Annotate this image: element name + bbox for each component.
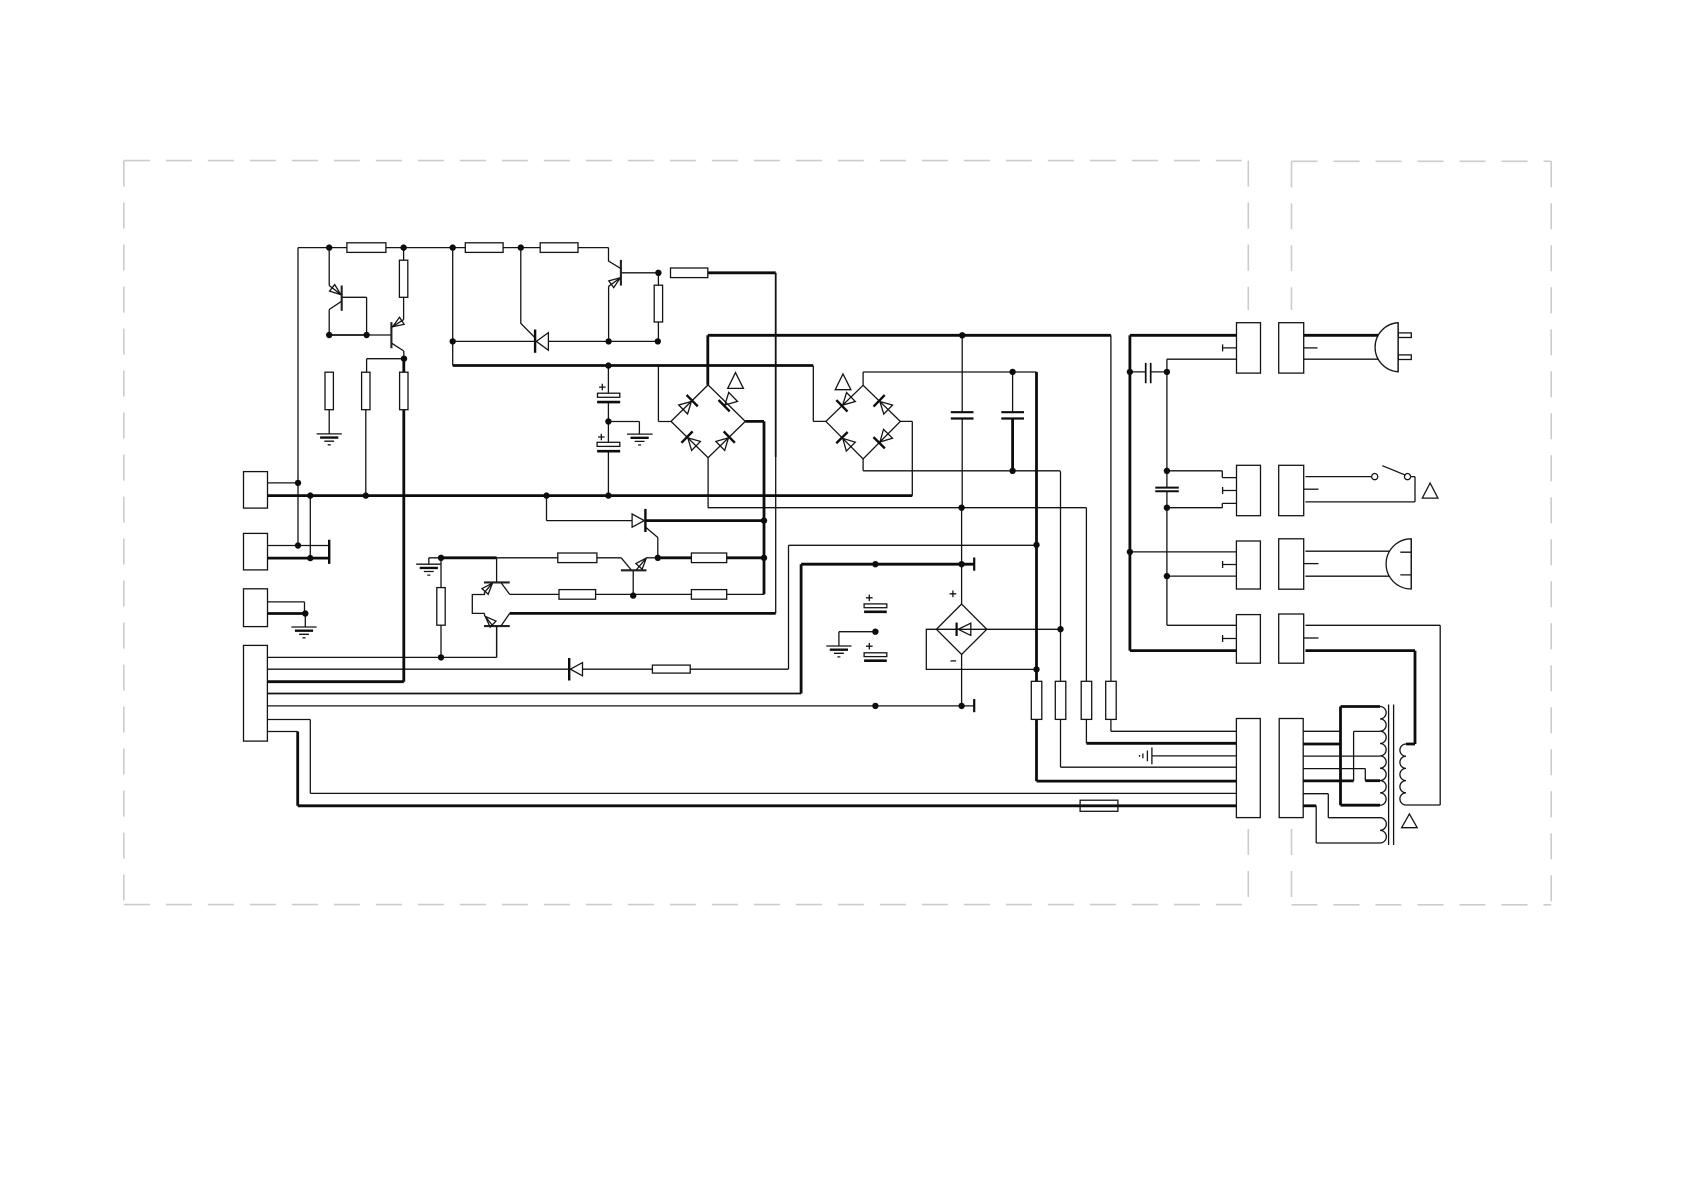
wire Q3 emitter drop <box>608 286 610 341</box>
node lower rail C1 <box>605 362 611 368</box>
wire connector J3 pin2 bold to ground node <box>268 612 306 615</box>
wire lamp LA1 upper lead <box>1305 550 1392 552</box>
wire bridge BR3 bottom chain <box>961 655 963 706</box>
node C6 C7 midpoint <box>872 629 878 635</box>
connector P2R middle pin stub <box>1304 488 1319 490</box>
wire rail tap to J2 pin2 net <box>309 496 311 558</box>
wire net from BR1 bottom to fuse F3 column <box>708 507 1087 509</box>
connector J4 <box>244 645 268 741</box>
terminator bar TB3 <box>973 699 975 712</box>
wire J4 pin1 row to Q5 base corner <box>267 626 496 657</box>
resistor R4 <box>399 260 407 297</box>
wire bridge BR3 left vertex loop <box>926 629 1036 669</box>
node Q2 collector <box>401 356 407 362</box>
capacitor C5 series <box>1146 363 1151 383</box>
lamp LA1 <box>1386 539 1411 589</box>
node base rail left <box>326 332 332 338</box>
connector P2L <box>1237 465 1261 515</box>
wire resistor R15 bottom to J4 pin1 row <box>440 625 442 657</box>
wire to connector P2L lower pin <box>1167 503 1237 507</box>
wire connector J2 pin1 to terminator TB1 <box>268 545 330 547</box>
wire connector P5R pin7 bold stub <box>1303 804 1316 807</box>
wire electrolytic C1 top feed <box>607 366 609 394</box>
node base rail mid <box>363 332 369 338</box>
capacitor C3 <box>951 412 974 418</box>
wire transformer primary common bold bus <box>1339 707 1342 806</box>
node J2 pin1 <box>295 542 301 548</box>
wire base rail between Q1 and Q2 <box>329 334 366 336</box>
transformer TR1 secondary winding <box>1400 744 1406 805</box>
node Q3 base <box>655 270 661 276</box>
connector P2R <box>1279 465 1304 515</box>
resistor R7 <box>400 372 408 410</box>
wire lower supply rail y=365.5 <box>453 364 814 367</box>
wire bridge BR1 right vertex drop <box>745 421 764 594</box>
accessory dashed box left edge upper run <box>1291 161 1293 310</box>
wire resistor R14 to feedback riser <box>690 668 788 670</box>
connector P4R middle pin stub <box>1304 637 1319 639</box>
node BR3 top chain upper <box>958 505 964 511</box>
ground GND5 <box>826 632 875 657</box>
switch SW1 <box>1372 466 1411 480</box>
bridge rectifier BR2 <box>826 385 900 459</box>
node top rail riser A <box>450 244 456 250</box>
transistor Q6 <box>621 555 650 570</box>
node top rail D1 feed <box>518 244 524 250</box>
wire bridge BR2 top vertex to cap C4 net <box>863 372 1036 385</box>
wire feedback net to fuse F1 column <box>789 544 1037 546</box>
wire amp row3 bold from Q5 collector <box>510 612 776 615</box>
wire Q6 base drop to row2 <box>632 570 634 595</box>
capacitor C8 <box>1155 488 1179 492</box>
wire vertical link rows at x=775.7 lower part <box>775 457 777 613</box>
wire Q2 collector bold chain through resistor R7 <box>402 359 405 682</box>
wire Q2 emitter to resistor R4 <box>403 297 405 319</box>
bridge rectifier BR3 <box>936 591 986 661</box>
wire lamp LA1 lower lead <box>1305 575 1392 577</box>
node P2 lower tap <box>1164 505 1170 511</box>
node lamp upper tap <box>1127 549 1133 555</box>
wire connector P5R pin1 link <box>1303 730 1340 732</box>
wire diode D2 output bold to bridge column <box>645 519 764 522</box>
node rail R6 <box>363 492 369 498</box>
connector P3R <box>1279 539 1304 589</box>
wire amp row2 right segment <box>727 593 764 595</box>
wire amp row1 left segment <box>497 557 558 559</box>
wire fuse F2 to connector P5L <box>1061 766 1237 768</box>
warning triangle W4 <box>1402 814 1418 828</box>
ground GND3 <box>291 627 316 638</box>
node BR3 right F2 <box>1057 626 1063 632</box>
wire bridge BR3 right vertex to fuse F2 column <box>987 628 1061 630</box>
wire node A to diode D1 <box>453 340 535 342</box>
wire stub top rail to resistor R4 <box>403 248 405 261</box>
wire emitter loop Q4-Q5 <box>472 592 484 615</box>
connector P1L middle pin stub <box>1223 344 1237 351</box>
resistor R8 <box>654 285 662 322</box>
connector P4L <box>1236 615 1260 664</box>
wire fuse F1 bold column <box>1035 372 1038 781</box>
wire resistor R8 to diode row <box>657 322 659 341</box>
chassis ground GND6 <box>1140 748 1152 765</box>
wire mid node to electrolytic C2 <box>607 422 609 443</box>
connector J1 <box>244 472 268 509</box>
wire T2 collector link to resistor R6 <box>367 359 404 373</box>
capacitor C1 polarized <box>597 384 620 402</box>
wire amp row2 left segment <box>510 593 559 595</box>
resistor R5 <box>325 372 333 410</box>
connector J2 <box>244 533 268 570</box>
node bus C3 tap <box>959 332 965 338</box>
wire resistor R9 output to drop x=775.7 <box>708 271 776 274</box>
accessory dashed box left edge lower run <box>1291 829 1293 905</box>
node lamp lower tap <box>1164 573 1170 579</box>
warning triangle W3 <box>1422 483 1438 498</box>
warning triangle W2 <box>835 374 851 390</box>
capacitor C7 polarized <box>864 643 887 661</box>
wire series cap C5 right lead <box>1151 371 1167 373</box>
accessory dashed box top edge <box>1292 160 1552 162</box>
node C4 top <box>1009 369 1015 375</box>
resistor R11 <box>691 553 726 563</box>
wire connector J4 pin5 net to terminator TB3 <box>267 705 974 707</box>
node BR3 loop F1 <box>1033 666 1039 672</box>
main unit dashed box left edge <box>123 161 125 905</box>
node Q4 base R15 <box>438 555 444 561</box>
fuse F1 <box>1031 681 1042 719</box>
node D2 output column <box>761 517 767 523</box>
wire feedback net riser from diode D3 row <box>788 545 790 669</box>
wire amp row1 right of Q6 <box>647 557 658 559</box>
transistor Q3 <box>609 248 623 288</box>
wire top bus y=335.3 left segment with drop to BR1 <box>708 335 1111 385</box>
wire node B to resistor R8 <box>657 273 659 285</box>
node top rail Q1 emitter <box>326 244 332 250</box>
wire cap C3 top feed <box>961 335 963 412</box>
connector P4L middle pin stub <box>1223 635 1237 642</box>
diode D1 <box>535 330 548 353</box>
wire Q1 collector drop to base rail <box>328 310 330 336</box>
wire amp row1 middle segment <box>597 557 621 559</box>
wire connector P4R bold to transformer secondary top <box>1305 651 1415 744</box>
connector P3L <box>1236 541 1260 589</box>
main unit dashed box top edge <box>124 160 1249 162</box>
transistor Q5 <box>482 613 509 657</box>
wire cap C4 bottom bold drop <box>1011 419 1014 471</box>
wire C2 bottom to bold rail <box>607 452 609 495</box>
wire right column distribution upper <box>1166 372 1168 488</box>
warning triangle W1 <box>728 373 744 389</box>
diode D2 <box>632 509 645 532</box>
node C1 C2 midpoint <box>605 418 611 424</box>
wire Q1 base link <box>342 297 367 335</box>
wire bridge BR2 bottom vertex to cap C4 bottom net <box>863 459 1060 471</box>
connector P3R middle pin stub <box>1304 563 1319 565</box>
node Q6 base row2 <box>630 592 636 598</box>
wire connector P1R to mains plug PL1 <box>1304 334 1380 337</box>
wire main bold rail from connector J1 pin2 <box>268 494 913 497</box>
wire feed from top rail into diode D1 cathode <box>521 248 535 338</box>
connector P1R middle pin stub <box>1304 347 1318 349</box>
resistor R9 <box>671 268 708 278</box>
node diode row R8 <box>655 338 661 344</box>
connector P4R <box>1279 614 1304 663</box>
wire connector J3 pin1 <box>268 602 305 614</box>
ground GND1 <box>317 434 342 445</box>
transistor Q4 <box>482 558 510 595</box>
wire Q3 base to node B <box>621 272 659 274</box>
resistor R13 <box>691 590 726 600</box>
wire connector P5R pin6 to lower winding top tap <box>1303 794 1380 818</box>
node net706 BR3 <box>958 703 964 709</box>
wire right column distribution lower <box>1166 491 1168 625</box>
wire bridge BR2 left riser from bold rail <box>813 366 826 422</box>
node J3 ground <box>302 610 308 616</box>
wire fuse F1 to connector P5L <box>1037 780 1237 783</box>
wire connector J4 pin4 net <box>267 693 801 695</box>
wire connector J2 pin2 bold to terminator TB1 <box>268 557 330 560</box>
wire pin7 chain to lower winding bottom tap <box>1316 806 1380 843</box>
wire cap C4 top feed <box>1012 372 1014 412</box>
wire bold riser x=801.1 <box>800 564 803 693</box>
connector P1R <box>1279 323 1304 373</box>
accessory dashed box bottom edge <box>1292 904 1552 906</box>
wire top bus y=335.3 right segment to connector P1L <box>1130 334 1237 337</box>
wire mid node to ground GND2 <box>608 422 639 435</box>
wire connector P5R pin3 to tap3 <box>1303 755 1380 757</box>
wire to connector P4L upper pin <box>1167 624 1237 626</box>
connector P5R <box>1279 719 1303 818</box>
wire jog from bold rail down to diode D2 anode <box>547 496 634 521</box>
node net706 C7 <box>872 703 878 709</box>
wire bridge BR3 top chain <box>961 508 963 604</box>
wire to connector P2L upper pin <box>1167 471 1237 478</box>
transformer TR1 core <box>1389 705 1394 846</box>
capacitor C2 polarized <box>597 434 620 452</box>
wire Q4 base bold feed <box>441 556 497 559</box>
node C5 right <box>1164 369 1170 375</box>
connector P5L <box>1236 719 1260 818</box>
wire lamp feed lower to connector P3L <box>1167 575 1237 577</box>
wire connector J4 pin6 long return <box>267 720 1236 794</box>
node rail D2 jog <box>543 492 549 498</box>
node Q6 emitter <box>655 555 661 561</box>
diode D3 <box>569 658 582 681</box>
main unit dashed box bottom edge <box>124 904 1249 906</box>
wire ground stem below J3 pins <box>304 614 306 628</box>
node diode row left <box>450 338 456 344</box>
wire bold drop to connector P4L lower pin <box>1130 649 1237 652</box>
connector J3 <box>244 589 268 627</box>
transistor Q1 <box>329 248 343 311</box>
ground GND2 <box>627 434 653 445</box>
wire bridge BR2 right vertex drop to bold rail <box>900 421 912 495</box>
wire amp row1 bold right segment <box>658 556 764 559</box>
wire connector P4R to transformer secondary bottom <box>1305 625 1440 805</box>
connector P1L <box>1237 323 1261 373</box>
wire connector J4 pin2 to diode D3 <box>267 668 569 670</box>
node C4 bottom <box>1009 468 1015 474</box>
fuse F2 <box>1055 681 1066 719</box>
fuse F4 <box>1106 681 1117 719</box>
wire bold net y=564.2 to terminator TB2 <box>801 563 974 566</box>
wire switch SW1 loop from connector P2R <box>1305 477 1415 502</box>
wire C5 net to connector P1L lower pin <box>1167 359 1237 372</box>
accessory dashed box right edge <box>1550 161 1552 905</box>
node R15 bottom row <box>438 654 444 660</box>
wire connector J4 pin7 stub <box>267 731 297 733</box>
wire top supply rail y=247.6 <box>298 247 609 249</box>
wire fuse F2 column <box>1059 471 1062 767</box>
wire connector P1R lower pin to mains plug PL1 <box>1304 358 1380 360</box>
main unit dashed box right edge upper run <box>1247 161 1249 310</box>
wire cap C3 bottom drop <box>961 419 963 508</box>
node rail x=310.3 <box>307 492 313 498</box>
node C5 left <box>1127 369 1133 375</box>
main unit dashed box right edge lower run <box>1247 829 1249 905</box>
node J2 pin2 <box>307 555 313 561</box>
wire connector P5R pin5 bold <box>1303 780 1353 783</box>
resistor R6 <box>362 372 370 410</box>
wire riser node A to lower rail corner <box>452 248 454 366</box>
node rail C2 <box>605 492 611 498</box>
wire connector P5R pin4 to tap4 <box>1303 769 1365 781</box>
resistor R10 <box>558 553 597 563</box>
wire diode D2 cathode branch to Q6 emitter node <box>645 527 657 558</box>
terminator bar TB2 <box>973 558 975 571</box>
transformer TR1 primary lower winding <box>1380 818 1386 843</box>
wire lower rail riser to bridge BR1 left vertex <box>658 366 671 422</box>
wire connector J1 pin1 <box>268 482 299 484</box>
wire primary bottom tap bold <box>1341 804 1381 807</box>
wire fuse F3 bold link to connector P5L <box>1086 742 1236 745</box>
wire resistor R6 bottom to bold rail <box>365 410 367 496</box>
wire diode D1 anode row to resistor R8 node <box>548 340 658 342</box>
node top rail R4 <box>400 244 406 250</box>
wire fuse F4 to connector P5L <box>1111 730 1237 732</box>
fuse F3 <box>1081 681 1092 719</box>
resistor R1 <box>347 243 386 253</box>
node J1 pin1 <box>295 480 301 486</box>
wire chassis net to connector P5L <box>1152 755 1237 757</box>
resistor R2 <box>465 243 503 253</box>
wire diode D3 to resistor R14 <box>582 668 652 670</box>
wire primary tap4 bold stub <box>1365 779 1380 782</box>
wire lamp feed upper to connector P3L <box>1130 551 1237 553</box>
bridge rectifier BR1 <box>671 385 745 458</box>
mains plug PL1 <box>1375 323 1411 372</box>
resistor R15 <box>437 588 445 626</box>
node diode row Q3 emitter <box>605 338 611 344</box>
wire bold chain to connector J4 pin3 <box>267 680 403 683</box>
resistor R14 <box>652 665 690 673</box>
resistor R3 <box>540 243 578 253</box>
wire fuse F3 column <box>1085 508 1087 744</box>
wire resistor R15 top stub <box>440 558 442 588</box>
wire primary top tap bold <box>1341 705 1381 708</box>
node feedback F1 <box>1033 542 1039 548</box>
wire primary tap2 stub and drop <box>1354 731 1380 781</box>
node P2 upper tap <box>1164 468 1170 474</box>
wire connector P5R pin2 bold <box>1303 743 1340 746</box>
ground GND4 <box>416 564 441 575</box>
wire left drop from top rail to connector J1/J2 pins <box>297 248 299 546</box>
wire fuse F4 column <box>1110 335 1112 731</box>
node net564 BR3 <box>958 561 964 567</box>
connector P2L middle pin stub <box>1223 487 1237 494</box>
transformer TR1 primary upper winding <box>1380 707 1386 806</box>
wire C1 bottom to mid node <box>607 403 609 421</box>
resistor R12 <box>559 590 596 600</box>
capacitor C4 <box>1001 412 1024 418</box>
capacitor C6 polarized <box>864 595 887 612</box>
wire bold distribution drop x=1129.9 <box>1129 335 1132 650</box>
terminator bar TB1 <box>328 540 330 564</box>
wire bridge BR1 bottom vertex drop <box>707 458 709 508</box>
wire ground branch GND4 stem <box>429 558 441 564</box>
wire series cap C5 left lead <box>1130 371 1146 373</box>
wire amp row2 middle segment <box>596 593 692 595</box>
fuse F5 <box>1080 800 1118 811</box>
transistor Q2 <box>390 317 404 358</box>
node row1 column <box>761 555 767 561</box>
node net564 C6 <box>872 561 878 567</box>
connector P3L middle pin stub <box>1223 561 1237 568</box>
wire resistor R5 bottom to ground GND1 <box>328 410 330 434</box>
wire connector J4 pin7 bold return <box>298 732 1237 806</box>
